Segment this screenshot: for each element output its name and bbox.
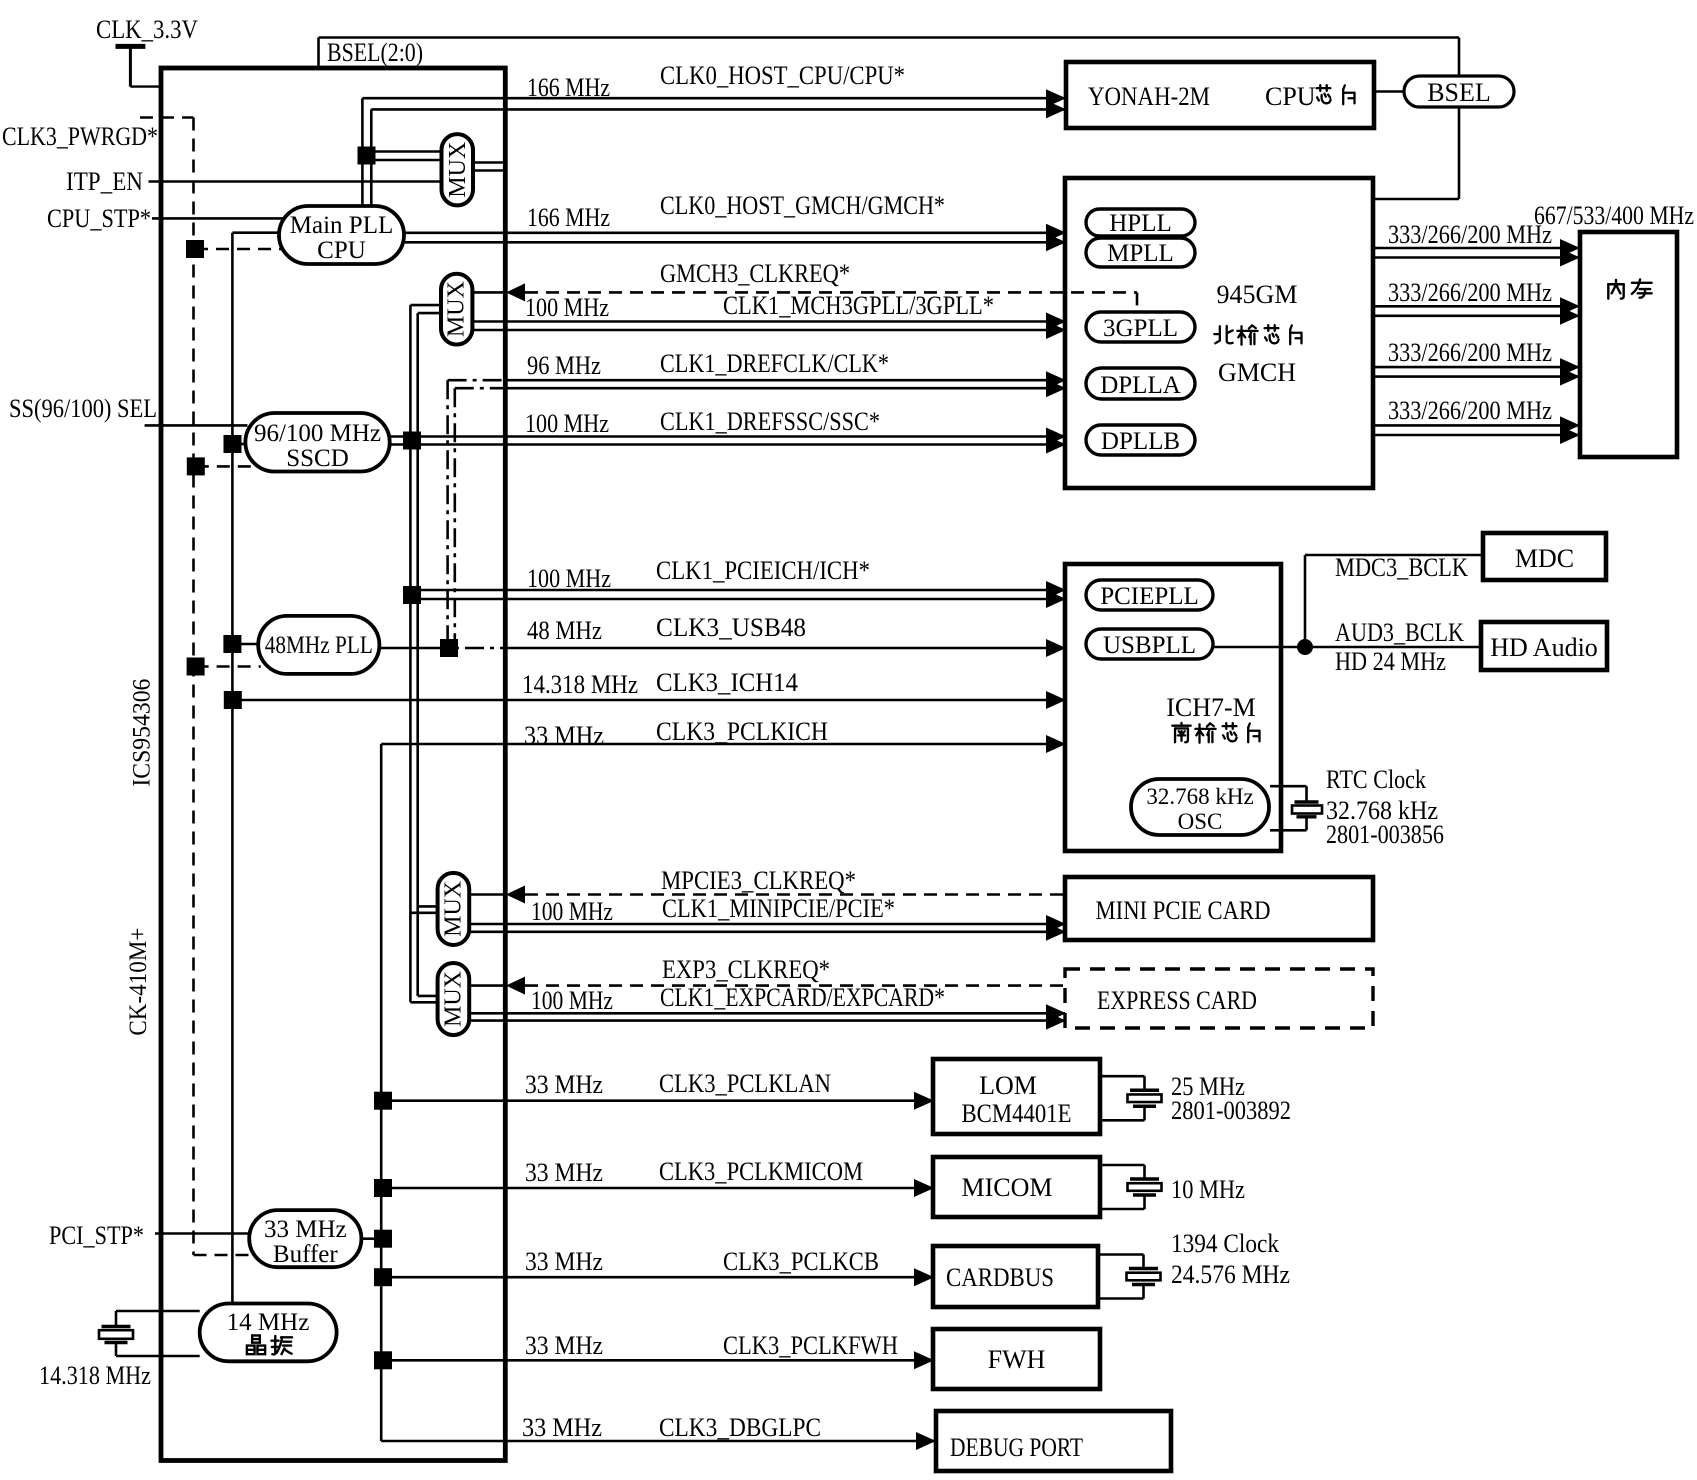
label AUD3_BCLK xyxy=(1335,618,1464,647)
junction buffer-33MHz bus xyxy=(374,1230,392,1248)
arrow CLK1_MINIPCIE into MINI PCIE xyxy=(1046,915,1066,941)
svg-text:CLK3_DBGLPC: CLK3_DBGLPC xyxy=(659,1413,821,1442)
svg-text:2801-003892: 2801-003892 xyxy=(1171,1096,1291,1125)
arrow EXP3_CLKREQ* into chip xyxy=(506,977,525,995)
svg-text:HD 24 MHz: HD 24 MHz xyxy=(1335,647,1446,676)
wire BSEL(2:0) to GMCH xyxy=(1372,198,1459,201)
label box BSEL(2:0) xyxy=(319,38,424,69)
block MICOM xyxy=(933,1157,1100,1217)
arrow memory bus 4 xyxy=(1560,416,1580,444)
arrow MPCIE3_CLKREQ* into chip xyxy=(506,886,525,904)
arrow CLK3_PCLKMICOM into MICOM xyxy=(914,1179,934,1197)
oscillator 14 MHz crystal xyxy=(200,1304,337,1362)
label CLK3_DBGLPC xyxy=(522,1413,821,1442)
svg-text:CLK3_PWRGD*: CLK3_PWRGD* xyxy=(2,122,158,151)
label beiqiao xinpian xyxy=(1214,325,1301,345)
mux U5 MUX4 xyxy=(438,963,470,1035)
svg-text:CK-410M+: CK-410M+ xyxy=(125,928,152,1036)
svg-text:667/533/400 MHz: 667/533/400 MHz xyxy=(1534,201,1694,230)
junction XTAL-SSCD xyxy=(224,435,247,453)
arrow CLK0_HOST_GMCH into GMCH xyxy=(1046,224,1066,252)
svg-text:FWH: FWH xyxy=(988,1345,1046,1374)
svg-text:CLK3_PCLKMICOM: CLK3_PCLKMICOM xyxy=(659,1157,863,1186)
svg-text:ICS954306: ICS954306 xyxy=(129,679,156,787)
svg-text:MPLL: MPLL xyxy=(1107,240,1174,267)
svg-text:YONAH-2M: YONAH-2M xyxy=(1088,82,1210,111)
svg-text:LOM: LOM xyxy=(979,1071,1037,1100)
svg-text:OSC: OSC xyxy=(1178,809,1223,834)
arrow CLK3_PCLKICH into ICH xyxy=(1046,735,1066,753)
svg-text:Buffer: Buffer xyxy=(273,1241,338,1268)
wire CLK3_PCLKLAN xyxy=(383,1099,933,1102)
pll 48MHz PLL xyxy=(258,616,379,674)
wire PWRGD to 33MHz Buffer xyxy=(194,1254,253,1257)
junction 33MHz-MICOM xyxy=(374,1179,392,1197)
wire SS(96/100) SEL xyxy=(145,424,248,427)
label 2801-003856 xyxy=(1326,820,1444,849)
clock generator chip U1 CK-410M+ boundary xyxy=(161,68,505,1461)
label 945GM xyxy=(1217,280,1298,309)
label RTC Clock xyxy=(1326,765,1426,794)
wire CPU_STP* xyxy=(152,217,283,220)
junction SSCD output xyxy=(403,432,421,450)
wire MDC3_BCLK xyxy=(1305,555,1483,647)
label ICS954306 xyxy=(129,679,156,787)
block FWH xyxy=(933,1329,1100,1389)
svg-text:CLK_3.3V: CLK_3.3V xyxy=(96,15,198,44)
label 2801-003892 xyxy=(1171,1096,1291,1125)
power symbol CLK_3.3V xyxy=(116,44,163,87)
svg-text:33 MHz: 33 MHz xyxy=(525,1247,603,1276)
wire BSEL(2:0) top xyxy=(319,36,1460,39)
arrow GMCH3_CLKREQ* into chip xyxy=(506,283,525,301)
net SSCD bus vertical B xyxy=(416,313,419,996)
svg-text:CLK1_MINIPCIE/PCIE*: CLK1_MINIPCIE/PCIE* xyxy=(662,894,895,923)
junction PWRGD-SSCD xyxy=(187,457,261,475)
input PCI_STP* label xyxy=(49,1221,144,1250)
wire MUX3 inputs xyxy=(410,906,437,912)
svg-text:33 MHz: 33 MHz xyxy=(525,1331,603,1360)
block HD Audio xyxy=(1481,622,1607,670)
svg-text:100 MHz: 100 MHz xyxy=(531,986,613,1015)
wire CLK3_PCLKMICOM xyxy=(383,1187,933,1190)
svg-text:HD Audio: HD Audio xyxy=(1490,633,1598,662)
wire BSEL(2:0) vertical xyxy=(1458,38,1461,200)
pll MPLL xyxy=(1086,238,1195,267)
svg-text:ICH7-M: ICH7-M xyxy=(1166,693,1256,722)
svg-text:HPLL: HPLL xyxy=(1109,210,1172,237)
svg-text:33 MHz: 33 MHz xyxy=(525,1070,603,1099)
svg-text:CPU: CPU xyxy=(1265,82,1316,111)
southbridge ICH7-M xyxy=(1065,564,1281,851)
arrow CLK1_DREFCLK into DPLLA xyxy=(1046,371,1066,397)
svg-text:333/266/200 MHz: 333/266/200 MHz xyxy=(1388,278,1552,307)
wire MUX4 inputs xyxy=(410,996,437,1002)
svg-text:PCI_STP*: PCI_STP* xyxy=(49,1221,144,1250)
svg-text:GMCH3_CLKREQ*: GMCH3_CLKREQ* xyxy=(660,259,850,288)
svg-text:SS(96/100) SEL: SS(96/100) SEL xyxy=(9,394,157,423)
svg-text:ITP_EN: ITP_EN xyxy=(66,167,143,196)
wire XTAL to Main PLL xyxy=(232,231,280,234)
wire MPCIE3_CLKREQ* dashed xyxy=(525,893,1065,896)
svg-text:33 MHz: 33 MHz xyxy=(524,721,604,750)
svg-text:MPCIE3_CLKREQ*: MPCIE3_CLKREQ* xyxy=(661,866,856,895)
svg-text:DEBUG PORT: DEBUG PORT xyxy=(950,1433,1083,1462)
svg-text:CLK1_MCH3GPLL/3GPLL*: CLK1_MCH3GPLL/3GPLL* xyxy=(723,291,994,320)
svg-text:MUX: MUX xyxy=(445,142,471,198)
wire memory bus 4 xyxy=(1373,425,1579,435)
block CARDBUS xyxy=(933,1246,1098,1307)
svg-text:PCIEPLL: PCIEPLL xyxy=(1100,583,1199,610)
svg-text:RTC Clock: RTC Clock xyxy=(1326,765,1426,794)
junction XTAL-ICH14 tap xyxy=(224,691,242,709)
svg-text:10 MHz: 10 MHz xyxy=(1171,1175,1245,1204)
svg-text:CLK1_PCIEICH/ICH*: CLK1_PCIEICH/ICH* xyxy=(656,556,870,585)
label CLK3_ICH14 xyxy=(522,668,798,699)
arrow CLK1_DREFSSC into DPLLB xyxy=(1046,428,1066,454)
junction 33MHz-LAN xyxy=(374,1092,392,1110)
wire PCI_STP* xyxy=(155,1232,251,1235)
arrow memory bus 1 xyxy=(1560,239,1580,267)
svg-text:CLK0_HOST_GMCH/GMCH*: CLK0_HOST_GMCH/GMCH* xyxy=(660,191,945,220)
svg-text:CLK3_USB48: CLK3_USB48 xyxy=(656,613,806,642)
arrow CLK3_PCLKFWH into FWH xyxy=(914,1351,934,1369)
svg-text:DPLLA: DPLLA xyxy=(1100,372,1181,399)
wire CPU to BSEL xyxy=(1374,90,1404,93)
wire CLK1_EXPCARD pair xyxy=(469,1013,1065,1020)
svg-text:33 MHz: 33 MHz xyxy=(525,1158,603,1187)
svg-text:BSEL: BSEL xyxy=(1427,78,1491,107)
svg-text:CLK1_DREFSSC/SSC*: CLK1_DREFSSC/SSC* xyxy=(660,407,880,436)
label MDC3_BCLK xyxy=(1335,553,1468,582)
net DREFCLK dashdot vertical A xyxy=(446,380,449,648)
arrow memory bus 3 xyxy=(1560,358,1580,386)
junction XTAL-48MHz PLL xyxy=(223,635,258,653)
label 25 MHz xyxy=(1171,1072,1245,1101)
label GMCH3_CLKREQ* xyxy=(660,259,850,288)
label CLK3_PCLKMICOM xyxy=(525,1157,863,1187)
power rail CLK_3.3V label xyxy=(96,15,198,44)
svg-text:MINI PCIE CARD: MINI PCIE CARD xyxy=(1096,896,1271,925)
svg-text:333/266/200 MHz: 333/266/200 MHz xyxy=(1388,396,1552,425)
crystal Y4 10 MHz xyxy=(1100,1165,1162,1209)
svg-text:CLK0_HOST_CPU/CPU*: CLK0_HOST_CPU/CPU* xyxy=(660,61,905,90)
svg-text:48MHz PLL: 48MHz PLL xyxy=(265,632,373,659)
svg-text:CLK1_DREFCLK/CLK*: CLK1_DREFCLK/CLK* xyxy=(660,349,889,378)
junction PCIEICH tap xyxy=(403,586,421,604)
junction 33MHz-FWH xyxy=(374,1351,392,1369)
arrow CLK3_PCLKCB into CARDBUS xyxy=(914,1268,934,1286)
svg-text:BCM4401E: BCM4401E xyxy=(962,1099,1072,1128)
svg-text:Main PLL: Main PLL xyxy=(290,212,393,239)
net 33MHz bus vertical xyxy=(380,744,383,1441)
label 333/266/200 MHz 4 xyxy=(1388,396,1552,425)
label CLK3_PCLKLAN xyxy=(525,1069,831,1099)
pll DPLLA xyxy=(1086,368,1195,399)
svg-text:100 MHz: 100 MHz xyxy=(525,409,609,438)
wire CLK1_PCIEICH pair xyxy=(403,590,1065,599)
label 10 MHz xyxy=(1171,1175,1245,1204)
label 333/266/200 MHz 1 xyxy=(1388,220,1552,249)
mux U2 MUX1 xyxy=(442,134,474,205)
svg-text:AUD3_BCLK: AUD3_BCLK xyxy=(1335,618,1464,647)
svg-text:3GPLL: 3GPLL xyxy=(1103,315,1178,342)
junction 33MHz-CARDBUS xyxy=(374,1268,392,1286)
arrow CLK3_DBGLPC into DEBUG PORT xyxy=(916,1432,936,1450)
svg-text:MUX: MUX xyxy=(440,971,466,1027)
arrow CLK3_ICH14 into ICH xyxy=(1046,691,1066,709)
label CLK1_EXPCARD/EXPCARD* xyxy=(531,983,945,1015)
wire memory bus 2 xyxy=(1373,306,1579,316)
label CLK3_PCLKCB xyxy=(525,1247,879,1276)
svg-text:33 MHz: 33 MHz xyxy=(522,1413,602,1442)
crystal Y5 24.576 MHz xyxy=(1098,1255,1161,1299)
input CPU_STP* label xyxy=(47,204,151,233)
label HD 24 MHz xyxy=(1335,647,1446,676)
svg-text:DPLLB: DPLLB xyxy=(1101,428,1180,455)
label CLK1_MCH3GPLL/3GPLL* xyxy=(525,291,994,322)
wire memory bus 3 xyxy=(1373,367,1579,377)
label 24.576 MHz xyxy=(1171,1260,1290,1289)
pll HPLL xyxy=(1086,209,1195,237)
junction PWRGD-MainPLL xyxy=(186,240,284,258)
crystal Y1 14.318 MHz xyxy=(99,1311,200,1356)
card MINI PCIE CARD xyxy=(1065,877,1373,940)
pll Main PLL CPU xyxy=(279,206,404,264)
svg-text:166 MHz: 166 MHz xyxy=(527,73,610,102)
label CK-410M+ xyxy=(125,928,152,1036)
label ICH7-M xyxy=(1166,693,1256,722)
arrow CLK0_HOST_CPU into CPU xyxy=(1046,89,1066,118)
svg-text:USBPLL: USBPLL xyxy=(1103,632,1196,659)
label 667/533/400 MHz xyxy=(1534,201,1694,230)
net BSEL oval xyxy=(1404,76,1514,107)
wire buffer output xyxy=(361,1237,383,1240)
svg-text:333/266/200 MHz: 333/266/200 MHz xyxy=(1388,338,1552,367)
arrow memory bus 2 xyxy=(1560,297,1580,325)
svg-text:CPU: CPU xyxy=(317,237,366,264)
svg-text:2801-003856: 2801-003856 xyxy=(1326,820,1444,849)
wire MUX3 clkreq out xyxy=(469,893,505,896)
svg-text:96/100 MHz: 96/100 MHz xyxy=(254,420,381,447)
wire MUX1 inputs xyxy=(375,152,442,161)
svg-text:CLK1_EXPCARD/EXPCARD*: CLK1_EXPCARD/EXPCARD* xyxy=(660,983,945,1012)
wire AUD3_BCLK xyxy=(1213,646,1481,649)
wire CLK3_DBGLPC xyxy=(381,1440,935,1443)
svg-text:EXPRESS CARD: EXPRESS CARD xyxy=(1097,986,1257,1015)
pll 3GPLL xyxy=(1086,312,1195,342)
svg-text:MDC: MDC xyxy=(1515,544,1574,573)
svg-text:166 MHz: 166 MHz xyxy=(527,203,610,232)
wire CLK1_DREFCLK line2 xyxy=(455,387,1065,390)
pll 96/100 MHz SSCD xyxy=(245,413,389,472)
svg-text:MUX: MUX xyxy=(440,881,466,937)
cpu chip YONAH-2M xyxy=(1066,62,1374,128)
svg-text:100 MHz: 100 MHz xyxy=(527,564,611,593)
svg-text:CLK3_PCLKFWH: CLK3_PCLKFWH xyxy=(723,1331,898,1360)
net SSCD bus vertical A xyxy=(409,305,412,1002)
label CLK1_MINIPCIE/PCIE* xyxy=(531,894,895,926)
label CLK3_PCLKICH xyxy=(524,717,828,750)
svg-text:14.318 MHz: 14.318 MHz xyxy=(522,670,638,699)
wire CLK0_HOST_CPU line1 xyxy=(362,98,1065,206)
input SS(96/100) SEL label xyxy=(9,394,157,423)
buffer 33 MHz Buffer xyxy=(249,1210,361,1268)
label 1394 Clock xyxy=(1171,1229,1279,1258)
svg-text:333/266/200 MHz: 333/266/200 MHz xyxy=(1388,220,1552,249)
wire CLK3_ICH14 xyxy=(233,699,1065,702)
oscillator 32.768 kHz OSC xyxy=(1131,779,1269,835)
svg-text:SSCD: SSCD xyxy=(286,445,349,472)
crystal Y2 RTC 32.768 kHz xyxy=(1270,786,1322,830)
wire MUX1 outputs xyxy=(473,163,504,171)
mux U3 MUX2 xyxy=(441,274,472,345)
wire CLK0_HOST_CPU line2 xyxy=(371,109,1065,206)
label 14.318 MHz xyxy=(39,1361,151,1390)
net XTAL vertical wire xyxy=(231,233,234,1304)
svg-text:48 MHz: 48 MHz xyxy=(527,616,602,645)
svg-text:14 MHz: 14 MHz xyxy=(227,1309,310,1336)
arrow CLK1_EXPCARD into EXPRESS CARD xyxy=(1046,1004,1066,1029)
svg-text:1394 Clock: 1394 Clock xyxy=(1171,1229,1279,1258)
wire MUX4 clkreq out xyxy=(469,984,505,987)
block DEBUG PORT xyxy=(936,1411,1171,1471)
label 32.768 kHz xyxy=(1326,796,1438,825)
crystal Y3 25 MHz xyxy=(1100,1076,1162,1120)
wire memory bus 1 xyxy=(1373,248,1579,258)
svg-text:EXP3_CLKREQ*: EXP3_CLKREQ* xyxy=(662,955,830,984)
net PWRGD dashed vertical xyxy=(192,118,195,1256)
svg-text:BSEL(2:0): BSEL(2:0) xyxy=(327,38,423,67)
label 333/266/200 MHz 2 xyxy=(1388,278,1552,307)
net DREFCLK dashdot vertical B xyxy=(453,388,456,648)
wire CLK3_PCLKICH xyxy=(381,743,1065,746)
wire CLK1_MCH3GPLL pair xyxy=(472,322,1065,331)
label CLK1_PCIEICH/ICH* xyxy=(527,556,870,593)
wire CLK3_PCLKFWH xyxy=(383,1359,933,1362)
svg-text:MDC3_BCLK: MDC3_BCLK xyxy=(1335,553,1468,582)
label CLK1_DREFSSC/SSC* xyxy=(525,407,880,438)
svg-text:CLK3_ICH14: CLK3_ICH14 xyxy=(656,668,798,697)
label CLK1_DREFCLK/CLK* xyxy=(527,349,889,380)
wire CLK3_PWRGD* dashed entry xyxy=(140,116,194,119)
svg-text:33 MHz: 33 MHz xyxy=(264,1216,347,1243)
wire ITP_EN xyxy=(149,180,442,183)
label CLK3_PCLKFWH xyxy=(525,1331,898,1360)
svg-text:MUX: MUX xyxy=(444,281,470,337)
label GMCH xyxy=(1218,358,1296,387)
label EXP3_CLKREQ* xyxy=(662,955,830,984)
wire GMCH3_CLKREQ* dashed xyxy=(525,292,1137,310)
card EXPRESS CARD xyxy=(1065,969,1373,1028)
pll DPLLB xyxy=(1086,425,1195,455)
pll PCIEPLL xyxy=(1086,580,1213,610)
svg-text:96 MHz: 96 MHz xyxy=(527,351,601,380)
wire CLK3_USB48 xyxy=(379,647,1065,650)
svg-text:MICOM: MICOM xyxy=(961,1173,1052,1202)
svg-text:100 MHz: 100 MHz xyxy=(531,897,613,926)
wire CLK3_PCLKCB xyxy=(383,1276,933,1279)
arrow CLK3_USB48 into USBPLL xyxy=(1046,639,1066,657)
arrow CLK3_PCLKLAN into LOM xyxy=(914,1092,934,1110)
label 333/266/200 MHz 3 xyxy=(1388,338,1552,367)
label CLK3_USB48 xyxy=(527,613,806,645)
pll USBPLL xyxy=(1086,629,1213,659)
svg-text:GMCH: GMCH xyxy=(1218,358,1296,387)
svg-text:100 MHz: 100 MHz xyxy=(525,293,609,322)
wire MUX2 clkreq out xyxy=(472,291,505,294)
label MPCIE3_CLKREQ* xyxy=(661,866,856,895)
northbridge 945GM GMCH xyxy=(1065,178,1373,488)
svg-text:CLK3_PCLKICH: CLK3_PCLKICH xyxy=(656,717,828,746)
svg-text:32.768 kHz: 32.768 kHz xyxy=(1146,784,1253,809)
junction MainPLL-MUX1 xyxy=(358,147,376,165)
svg-text:CARDBUS: CARDBUS xyxy=(946,1263,1054,1292)
svg-text:CLK3_PCLKCB: CLK3_PCLKCB xyxy=(723,1247,879,1276)
svg-text:945GM: 945GM xyxy=(1217,280,1298,309)
label CLK0_HOST_CPU/CPU* xyxy=(527,61,905,102)
svg-text:14.318 MHz: 14.318 MHz xyxy=(39,1361,151,1390)
arrow CLK1_MCH3GPLL into 3GPLL xyxy=(1046,313,1066,340)
lan LOM BCM4401E xyxy=(933,1059,1100,1134)
wire CLK1_DREFSSC pair xyxy=(390,437,1065,445)
wire CLK1_MINIPCIE pair xyxy=(469,924,1065,932)
junction PWRGD-48MHz xyxy=(187,658,261,676)
svg-text:CLK3_PCLKLAN: CLK3_PCLKLAN xyxy=(659,1069,831,1098)
memory block neicun xyxy=(1580,232,1677,457)
mux U4 MUX3 xyxy=(438,873,470,945)
block MDC xyxy=(1483,533,1606,580)
label nanqiao xinpian xyxy=(1172,723,1259,743)
svg-text:CPU_STP*: CPU_STP* xyxy=(47,204,151,233)
wire CLK0_HOST_GMCH pair xyxy=(405,233,1065,243)
junction 48MHz-DREFCLK xyxy=(440,639,458,657)
input CLK3_PWRGD* label xyxy=(2,122,158,151)
wire MUX2 inputs xyxy=(410,305,441,313)
svg-text:24.576 MHz: 24.576 MHz xyxy=(1171,1260,1290,1289)
input ITP_EN label xyxy=(66,167,143,196)
wire EXP3_CLKREQ* dashed xyxy=(525,984,1065,987)
label CLK0_HOST_GMCH/GMCH* xyxy=(527,191,945,232)
junction AUD3 node xyxy=(1297,639,1313,655)
arrow CLK1_PCIEICH into PCIEPLL xyxy=(1046,581,1066,608)
wire CLK1_DREFCLK line1 xyxy=(448,379,1065,382)
